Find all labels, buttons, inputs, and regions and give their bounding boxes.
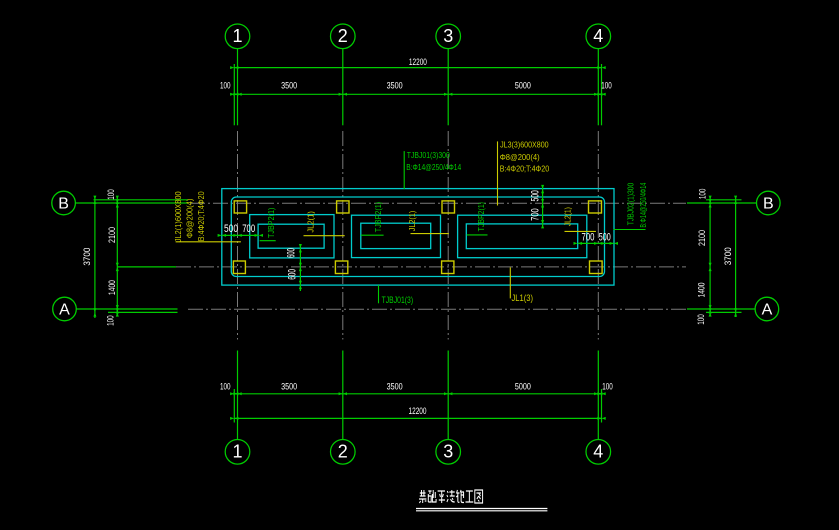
svg-text:B:Φ14@250/4Φ14: B:Φ14@250/4Φ14 [406, 163, 461, 172]
svg-text:2100: 2100 [697, 230, 707, 246]
svg-text:700: 700 [242, 223, 255, 235]
svg-text:B: B [763, 196, 774, 213]
svg-text:TJBJ02(1)300: TJBJ02(1)300 [627, 182, 636, 225]
svg-text:600: 600 [287, 269, 299, 280]
svg-text:3700: 3700 [82, 248, 92, 266]
svg-text:TJBP2(1): TJBP2(1) [477, 202, 486, 232]
svg-text:3500: 3500 [281, 81, 297, 91]
svg-text:100: 100 [602, 381, 613, 391]
svg-text:5000: 5000 [515, 381, 531, 391]
svg-text:700: 700 [582, 232, 595, 244]
svg-text:700: 700 [529, 208, 541, 221]
svg-text:500: 500 [599, 232, 611, 244]
svg-text:4: 4 [593, 26, 603, 46]
svg-text:3500: 3500 [281, 381, 297, 391]
svg-text:Φ8@200(4): Φ8@200(4) [500, 153, 540, 162]
svg-text:100: 100 [601, 81, 612, 91]
svg-text:3: 3 [443, 442, 453, 462]
svg-text:1: 1 [232, 26, 242, 46]
svg-text:1: 1 [232, 442, 242, 462]
svg-text:B:Φ14@250/4Φ14: B:Φ14@250/4Φ14 [639, 182, 648, 227]
svg-text:12200: 12200 [409, 57, 427, 67]
svg-text:600: 600 [286, 248, 298, 258]
svg-text:1400: 1400 [107, 280, 117, 295]
svg-text:JL3(3)600X800: JL3(3)600X800 [500, 141, 549, 150]
svg-text:B: B [58, 196, 69, 213]
svg-text:3700: 3700 [723, 247, 733, 265]
svg-text:B:4Φ20;T:4Φ20: B:4Φ20;T:4Φ20 [197, 191, 206, 241]
svg-text:2100: 2100 [107, 227, 117, 243]
svg-text:TJBP2(1): TJBP2(1) [267, 207, 276, 238]
svg-text:2: 2 [338, 442, 348, 462]
svg-text:2: 2 [338, 26, 348, 46]
svg-text:100: 100 [696, 314, 706, 325]
svg-text:100: 100 [220, 81, 231, 91]
svg-text:3500: 3500 [387, 381, 403, 391]
svg-text:100: 100 [106, 315, 116, 326]
svg-text:A: A [762, 302, 773, 319]
svg-text:4: 4 [593, 442, 603, 462]
svg-text:500: 500 [529, 190, 541, 201]
svg-text:1400: 1400 [697, 283, 707, 298]
svg-text:JL2(1): JL2(1) [408, 210, 417, 231]
svg-text:TJBJ01(3): TJBJ01(3) [382, 295, 414, 305]
svg-text:A: A [59, 302, 70, 319]
svg-text:5000: 5000 [515, 81, 531, 91]
svg-text:JL2(1): JL2(1) [306, 211, 315, 233]
svg-text:Φ8@200(4): Φ8@200(4) [186, 198, 195, 238]
svg-text:3500: 3500 [387, 81, 403, 91]
svg-text:TJBJ01(3)300: TJBJ01(3)300 [407, 151, 450, 160]
svg-text:TJBP2(1): TJBP2(1) [374, 201, 383, 232]
svg-text:JL2(1): JL2(1) [564, 207, 573, 227]
svg-text:100: 100 [697, 189, 707, 200]
svg-text:JL2(1)600X800: JL2(1)600X800 [174, 191, 183, 242]
svg-text:JL1(3): JL1(3) [512, 293, 534, 303]
svg-text:3: 3 [443, 26, 453, 46]
svg-text:100: 100 [220, 381, 231, 391]
svg-text:500: 500 [224, 223, 238, 235]
svg-text:B:4Φ20;T:4Φ20: B:4Φ20;T:4Φ20 [500, 165, 550, 174]
svg-text:100: 100 [106, 189, 116, 200]
svg-text:12200: 12200 [409, 406, 427, 416]
